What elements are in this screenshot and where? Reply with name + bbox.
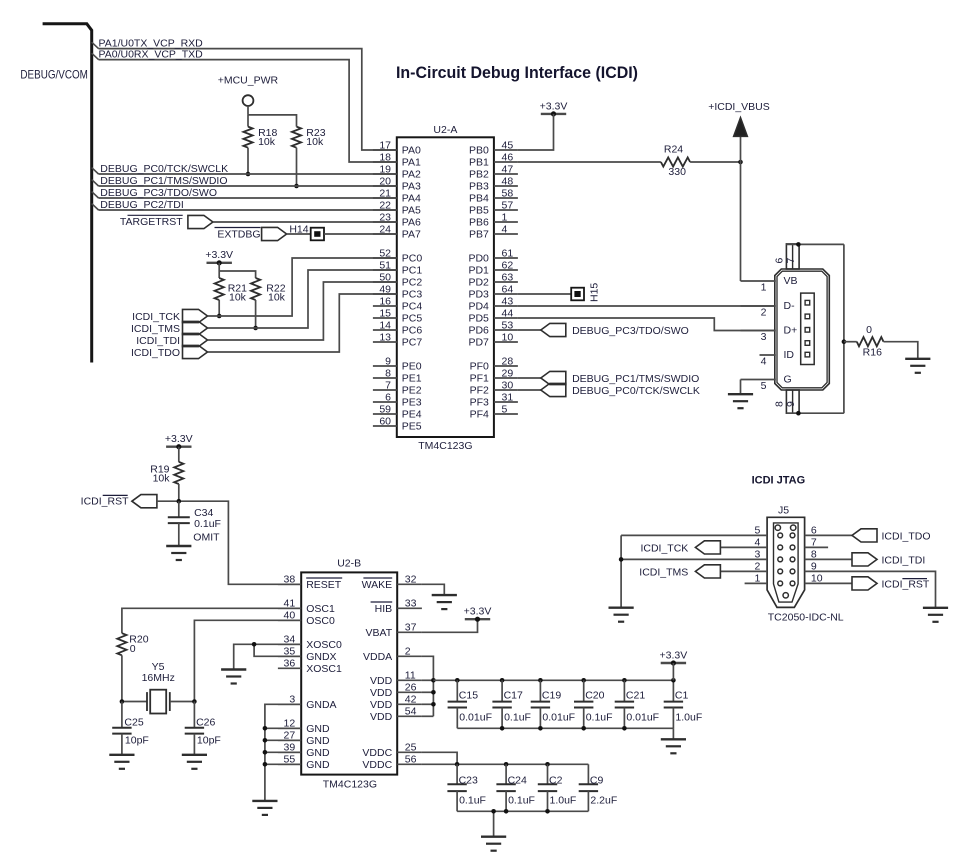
flag DEBUG_PC0/TCK/SWCLK (PF2) [518, 383, 566, 396]
svg-text:10: 10 [811, 572, 823, 584]
capacitor C24 0.1uF [496, 764, 535, 811]
svg-text:ICDI_TCK: ICDI_TCK [640, 542, 688, 554]
svg-text:10pF: 10pF [197, 735, 221, 747]
svg-text:RESET: RESET [306, 579, 342, 591]
J5 contact circles [775, 525, 796, 598]
svg-text:37: 37 [405, 622, 417, 634]
U2-A pin 44 PD5 [468, 307, 517, 324]
svg-text:PF3: PF3 [470, 397, 489, 409]
capacitor C20 0.1uF [574, 680, 613, 728]
svg-text:C15: C15 [459, 689, 478, 701]
svg-text:2: 2 [405, 646, 411, 658]
svg-text:0: 0 [866, 324, 872, 336]
flag DEBUG_PC1/TMS/SWDIO (PF1) [518, 371, 566, 384]
flag ICDI_TDI [183, 333, 208, 346]
wire VDD caps bottom bus [457, 727, 673, 729]
junction VDDC bottom bus C24 [504, 809, 509, 814]
J5 pin 4 [720, 536, 767, 548]
U2-A pin 50 PC2 [373, 271, 422, 288]
U2-A pin 5 PF4 [470, 403, 518, 420]
junction GND rail 12 [263, 726, 268, 731]
junction XOSC0/GNDX [252, 642, 257, 647]
svg-text:20: 20 [379, 175, 391, 187]
U2-A pin 24 PA7 [373, 223, 421, 240]
net label ICDI_RST [81, 495, 129, 507]
U2-A pin 14 PC6 [373, 319, 422, 336]
U2-B pin 3 GNDA [278, 694, 337, 711]
net label ICDI_RST (J5) [882, 578, 930, 590]
capacitor C23 0.1uF [447, 764, 486, 811]
svg-text:0: 0 [130, 643, 136, 655]
svg-text:51: 51 [379, 259, 391, 271]
net label ICDI_TMS [131, 323, 180, 335]
svg-text:C9: C9 [590, 775, 604, 787]
svg-text:5: 5 [502, 403, 508, 415]
svg-text:TM4C123G: TM4C123G [323, 779, 377, 791]
U2-B pin 38 RESET [278, 574, 342, 591]
net label ICDI_TDO [131, 347, 180, 359]
wire USB shield top [786, 243, 844, 245]
svg-text:23: 23 [379, 211, 391, 223]
wire GND pin row 12 [265, 727, 301, 729]
resistor R20 0 [117, 633, 148, 655]
junction VDDC bus C23 [455, 762, 460, 767]
resistor R21 10k [215, 278, 248, 304]
svg-text:2: 2 [761, 307, 767, 319]
svg-text:ID: ID [784, 349, 795, 361]
ground (J5 left) [609, 608, 634, 622]
U2-B pin 34 XOSC0 [278, 634, 342, 651]
U2-A pin 43 PD4 [468, 295, 517, 312]
svg-text:TM4C123G: TM4C123G [418, 440, 472, 452]
svg-text:XOSC0: XOSC0 [306, 639, 342, 651]
section title ICDI JTAG [752, 475, 806, 487]
USB pin 3 D+ [741, 324, 798, 343]
svg-text:PF2: PF2 [470, 385, 489, 397]
svg-text:HIB: HIB [375, 603, 393, 615]
junction shield top [796, 242, 801, 247]
resistor R23 10k [292, 127, 326, 149]
U2-A pin 9 PE0 [373, 355, 422, 372]
wire R20 bottom to crystal left node [121, 655, 123, 701]
ground (XOSC0/GNDX) [221, 670, 246, 684]
junction bottom bus C21 [622, 726, 627, 731]
svg-text:PD5: PD5 [468, 313, 489, 325]
svg-text:1: 1 [502, 211, 508, 223]
U2-A pin 6 PE3 [373, 391, 422, 408]
U2-B pin 54 VDD [370, 706, 422, 723]
U2-B pin 12 GND [278, 718, 330, 735]
wire net PA0/U0RX_VCP_TXD (to U2-A PA1 pin 18) [92, 53, 397, 162]
wire R24 to VBUS junction [690, 161, 740, 163]
svg-text:PA2: PA2 [402, 169, 421, 181]
wire net PA1/U0TX_VCP_RXD (to U2-A PA0 pin 17) [92, 42, 397, 150]
svg-text:PD6: PD6 [468, 325, 489, 337]
U2-B pin 35 GNDX [278, 646, 337, 663]
wire VDDC pin 25 to bus [422, 752, 457, 764]
svg-text:0.01uF: 0.01uF [542, 712, 575, 724]
J5 pin 7 [805, 536, 829, 548]
junction VDD rail 10 [431, 702, 436, 707]
ground (USB G) [728, 394, 753, 408]
svg-text:PA0: PA0 [402, 145, 421, 157]
svg-text:0.1uF: 0.1uF [586, 712, 613, 724]
junction VDD rail 9 [431, 690, 436, 695]
power symbol +ICDI_VBUS (arrow) [708, 101, 770, 162]
wire VDDC bottom bus to ground [493, 811, 495, 836]
svg-text:44: 44 [502, 307, 514, 319]
svg-text:R16: R16 [863, 347, 882, 359]
junction VDDC bus C2 [545, 762, 550, 767]
U2-A pin 60 PE5 [373, 415, 422, 432]
U2-A pin 28 PF0 [470, 355, 518, 372]
svg-text:27: 27 [284, 730, 296, 742]
svg-text:PB1: PB1 [469, 157, 489, 169]
net label ICDI_TDI (J5) [882, 554, 926, 566]
svg-text:PA6: PA6 [402, 217, 421, 229]
junction VDD bus C15 [455, 678, 460, 683]
svg-text:PC1: PC1 [402, 265, 423, 277]
svg-text:C1: C1 [675, 689, 689, 701]
svg-text:57: 57 [502, 199, 514, 211]
capacitor C17 0.1uF [492, 680, 531, 728]
svg-text:VDDC: VDDC [362, 747, 392, 759]
wire net DEBUG_PC2/TDI (to U2-A pin row) [92, 204, 397, 210]
svg-text:GND: GND [306, 735, 330, 747]
wire USB shield right vertical [843, 244, 845, 413]
svg-text:ICDI_TMS: ICDI_TMS [131, 323, 180, 335]
svg-text:C24: C24 [508, 775, 527, 787]
flag DEBUG_PC3/TDO/SWO (PD6) [518, 323, 566, 336]
wire VDDC bus [422, 763, 589, 765]
wire R18 bottom to DEBUG_PC0 line [247, 148, 249, 174]
J5 pin 9 [805, 560, 936, 607]
svg-text:C21: C21 [626, 689, 645, 701]
wire J5 pins 5/3 to ground [620, 535, 622, 607]
wire ICDI_RST to U2-B RESET pin 38 [157, 501, 301, 584]
svg-text:C19: C19 [542, 689, 561, 701]
wire WAKE to ground [422, 584, 444, 595]
svg-text:VDD: VDD [370, 699, 393, 711]
wire VDDA to VDD rail [422, 656, 434, 716]
U2-B pin 39 GND [278, 742, 330, 759]
svg-text:ICDI_TDO: ICDI_TDO [882, 530, 931, 542]
wire net ICDI_TDI (to U2-A pin) [208, 282, 397, 340]
svg-text:ICDI_TMS: ICDI_TMS [639, 566, 688, 578]
svg-text:9: 9 [785, 401, 797, 407]
junction VDDC bus C24 [504, 762, 509, 767]
svg-text:9: 9 [811, 560, 817, 572]
net label DEBUG_PC0/TCK/SWCLK [100, 163, 228, 175]
svg-text:0.1uF: 0.1uF [194, 518, 221, 530]
svg-text:6: 6 [811, 524, 817, 536]
svg-text:DEBUG_PC0/TCK/SWCLK: DEBUG_PC0/TCK/SWCLK [572, 385, 700, 397]
junction R24/ICDI_VBUS/USB VB [738, 160, 743, 165]
svg-text:32: 32 [405, 574, 417, 586]
svg-text:5: 5 [755, 524, 761, 536]
J5 pin 1 [745, 572, 768, 584]
svg-text:PE3: PE3 [402, 397, 422, 409]
capacitor C2 1.0uF [538, 764, 577, 811]
svg-text:PA1: PA1 [402, 157, 421, 169]
wire VDD row 54 to rail [422, 715, 434, 717]
ground (C25) [109, 755, 134, 769]
svg-text:C25: C25 [124, 717, 143, 729]
svg-text:48: 48 [502, 175, 514, 187]
svg-text:26: 26 [405, 682, 417, 694]
svg-text:VDDA: VDDA [363, 651, 392, 663]
U2-A pin 47 PB2 [469, 163, 518, 180]
U2-B pin 40 OSC0 [278, 610, 335, 627]
svg-text:PD0: PD0 [468, 253, 489, 265]
wire net DEBUG_PC1/TMS/SWDIO (to U2-A pin row) [92, 180, 397, 186]
op-amp U2-A (TM4C123G MCU port A-F) [397, 124, 494, 452]
svg-text:PE0: PE0 [402, 361, 422, 373]
U2-A pin 20 PA3 [373, 175, 421, 192]
flag ICDI_RST (J5 pin 10) [852, 577, 877, 590]
svg-text:0.1uF: 0.1uF [504, 712, 531, 724]
U2-A pin 7 PE2 [373, 379, 422, 396]
svg-text:PE2: PE2 [402, 385, 422, 397]
junction VDDC bottom bus C2 [545, 809, 550, 814]
svg-text:10pF: 10pF [125, 735, 149, 747]
svg-text:PE5: PE5 [402, 421, 422, 433]
svg-text:OMIT: OMIT [193, 532, 220, 544]
U2-A pin 52 PC0 [373, 247, 422, 264]
net label PA1/U0TX_VCP_RXD [99, 38, 204, 50]
svg-text:PD3: PD3 [468, 289, 489, 301]
svg-text:ICDI JTAG: ICDI JTAG [752, 475, 806, 487]
J5 pin 6 [805, 524, 852, 536]
test point H14 [289, 223, 324, 240]
net label DEBUG_PC1/TMS/SWDIO [100, 175, 227, 187]
junction bottom bus C17 [500, 726, 505, 731]
U2-A pin 23 PA6 [373, 211, 421, 228]
svg-text:DEBUG_PC2/TDI: DEBUG_PC2/TDI [100, 199, 183, 211]
wire PB0 to +3.3V [518, 114, 554, 150]
svg-text:60: 60 [379, 415, 391, 427]
svg-text:12: 12 [284, 718, 296, 730]
capacitor C19 0.01uF [531, 680, 575, 728]
junction R22/ICDI_TMS [253, 326, 258, 331]
svg-text:10k: 10k [258, 136, 276, 148]
svg-text:+ICDI_VBUS: +ICDI_VBUS [708, 101, 770, 113]
U2-A pin 62 PD1 [468, 259, 517, 276]
svg-text:0.1uF: 0.1uF [459, 795, 486, 807]
svg-text:8: 8 [385, 367, 391, 379]
svg-text:7: 7 [811, 536, 817, 548]
svg-text:PB6: PB6 [469, 217, 489, 229]
U2-B pin 27 GND [278, 730, 330, 747]
svg-text:PB4: PB4 [469, 193, 489, 205]
wire VDD row 8 to rail [422, 679, 434, 681]
wire USB shield bottom [786, 412, 844, 414]
U2-A pin 51 PC1 [373, 259, 422, 276]
J5 pin 10 [805, 572, 852, 584]
U2-A pin 18 PA1 [373, 151, 421, 168]
U2-A pin 19 PA2 [373, 163, 421, 180]
svg-text:U2-A: U2-A [433, 124, 457, 136]
svg-text:EXTDBG: EXTDBG [217, 228, 260, 240]
wire +3.3V to R21/R22 tops [219, 263, 255, 278]
U2-A pin 45 PB0 [469, 139, 518, 156]
svg-text:10k: 10k [153, 472, 171, 484]
svg-text:45: 45 [502, 139, 514, 151]
svg-text:18: 18 [379, 151, 391, 163]
svg-text:DEBUG/VCOM: DEBUG/VCOM [20, 68, 88, 82]
capacitor C9 2.2uF [579, 764, 618, 811]
wire +MCU_PWR to R18/R23 tops [248, 115, 297, 127]
svg-text:GND: GND [306, 723, 330, 735]
svg-text:ICDI_RST: ICDI_RST [81, 496, 129, 508]
J5 pin 8 [805, 548, 852, 560]
wire +3.3V to R19 [178, 447, 180, 462]
svg-text:R24: R24 [664, 144, 683, 156]
svg-text:41: 41 [284, 598, 296, 610]
USB shell tab top (pins 6,7) [774, 244, 800, 269]
svg-text:2: 2 [755, 560, 761, 572]
svg-text:+3.3V: +3.3V [660, 649, 688, 661]
svg-text:8: 8 [774, 401, 786, 407]
resistor R16 0 [844, 324, 884, 359]
svg-text:PB3: PB3 [469, 181, 489, 193]
svg-text:OSC0: OSC0 [306, 615, 335, 627]
U2-A pin 21 PA4 [373, 187, 421, 204]
U2-A pin 63 PD2 [468, 271, 517, 288]
resistor R22 10k [251, 278, 286, 304]
svg-text:U2-B: U2-B [337, 558, 361, 570]
svg-text:+3.3V: +3.3V [540, 100, 568, 112]
flag ICDI_TCK [183, 309, 208, 322]
U2-A pin 16 PC4 [373, 295, 422, 312]
J5 pin 5 [621, 524, 767, 536]
wire net DEBUG_PC0/TCK/SWCLK (to U2-A pin row) [92, 168, 397, 174]
wire net USB D- (PD4 to USB pin 2) [518, 305, 775, 307]
junction shield bottom [796, 411, 801, 416]
U2-B pin 26 VDD [370, 682, 422, 699]
svg-text:PB2: PB2 [469, 169, 489, 181]
svg-text:50: 50 [379, 271, 391, 283]
svg-text:VBAT: VBAT [366, 627, 393, 639]
svg-text:PC0: PC0 [402, 253, 423, 265]
svg-text:40: 40 [284, 610, 296, 622]
svg-text:VDD: VDD [370, 711, 393, 723]
svg-text:330: 330 [668, 166, 686, 178]
svg-text:C2: C2 [549, 775, 563, 787]
flag ICDI_TDO (J5 pin 6) [852, 529, 877, 542]
svg-text:19: 19 [379, 163, 391, 175]
U2-B pin 33 HIB [371, 598, 422, 615]
junction VDD bus C20 [581, 678, 586, 683]
svg-text:PC6: PC6 [402, 325, 423, 337]
USB pin 5 G [741, 373, 792, 392]
U2-A pin 17 PA0 [373, 139, 421, 156]
svg-text:25: 25 [405, 742, 417, 754]
U2-B pin 55 GND [278, 754, 330, 771]
U2-A pin 13 PC7 [373, 331, 422, 348]
svg-text:24: 24 [379, 223, 391, 235]
U2-A pin 1 PB6 [469, 211, 518, 228]
flag EXTDBG (to PA7 pin 24) [262, 227, 311, 240]
svg-text:31: 31 [502, 391, 514, 403]
svg-text:DEBUG_PC3/TDO/SWO: DEBUG_PC3/TDO/SWO [572, 325, 689, 337]
svg-text:1.0uF: 1.0uF [550, 795, 577, 807]
ground (WAKE) [432, 595, 457, 609]
svg-text:2.2uF: 2.2uF [590, 795, 617, 807]
svg-text:+3.3V: +3.3V [205, 249, 233, 261]
svg-text:9: 9 [385, 355, 391, 367]
svg-text:62: 62 [502, 259, 514, 271]
U2-B pin 37 VBAT [366, 622, 422, 639]
svg-text:PF0: PF0 [470, 361, 489, 373]
flag ICDI_TCK (J5 pin 4) [695, 541, 720, 554]
wire OSC0 to crystal right node [194, 620, 301, 701]
svg-text:OSC1: OSC1 [306, 603, 335, 615]
USB shell tab bottom (pins 8,9) [774, 390, 800, 413]
wire R21 bottom to ICDI_TCK [218, 300, 220, 316]
wire PB1 to R24 [518, 161, 661, 163]
USB pin 4 ID [760, 349, 795, 368]
svg-text:0.01uF: 0.01uF [459, 712, 492, 724]
resistor R24 330 [661, 144, 690, 178]
svg-text:+3.3V: +3.3V [464, 606, 492, 618]
wire USB G to ground [740, 380, 742, 395]
svg-text:64: 64 [502, 283, 514, 295]
svg-text:59: 59 [379, 403, 391, 415]
capacitor C1 1.0uF [664, 680, 703, 728]
svg-text:10k: 10k [306, 136, 324, 148]
svg-text:GNDX: GNDX [306, 651, 336, 663]
svg-text:3: 3 [761, 331, 767, 343]
wire GNDA to GND rail [265, 704, 301, 801]
svg-text:PB7: PB7 [469, 229, 489, 241]
wire VDD row 10 to rail [422, 703, 434, 705]
svg-text:21: 21 [379, 187, 391, 199]
svg-text:TARGETRST: TARGETRST [120, 216, 183, 228]
svg-text:C23: C23 [459, 775, 478, 787]
svg-text:GND: GND [306, 759, 330, 771]
U2-A pin 30 PF2 [470, 379, 518, 396]
op-amp U2-B (TM4C123G power/clock) [301, 558, 397, 791]
junction VDD rail 8 [431, 678, 436, 683]
U2-A pin 49 PC3 [373, 283, 422, 300]
hierarchical block border DEBUG/VCOM [20, 24, 91, 363]
svg-text:1: 1 [755, 572, 761, 584]
svg-text:DEBUG_PC0/TCK/SWCLK: DEBUG_PC0/TCK/SWCLK [100, 163, 228, 175]
svg-text:VDD: VDD [370, 687, 393, 699]
svg-text:16MHz: 16MHz [142, 672, 175, 684]
svg-text:54: 54 [405, 706, 417, 718]
wire VBUS junction down to USB VB [740, 162, 742, 281]
net label PA0/U0RX_VCP_TXD [99, 49, 204, 61]
resistor R19 10k [150, 462, 183, 484]
U2-A pin 57 PB5 [469, 199, 518, 216]
svg-text:GNDA: GNDA [306, 699, 336, 711]
power symbol +3.3V (VBAT) [464, 606, 492, 622]
net label ICDI_TCK [132, 311, 180, 323]
U2-A pin 46 PB1 [469, 151, 518, 168]
svg-text:34: 34 [284, 634, 296, 646]
net label TARGETRST [120, 215, 183, 228]
svg-text:3: 3 [289, 694, 295, 706]
wire VDDC caps bottom bus [457, 810, 588, 812]
svg-text:C26: C26 [196, 717, 215, 729]
wire R23 bottom to DEBUG_PC1 line [296, 148, 298, 186]
svg-text:DEBUG_PC1/TMS/SWDIO: DEBUG_PC1/TMS/SWDIO [572, 373, 699, 385]
svg-text:61: 61 [502, 247, 514, 259]
svg-text:6: 6 [385, 391, 391, 403]
capacitor C34 0.1uF OMIT [168, 501, 221, 546]
